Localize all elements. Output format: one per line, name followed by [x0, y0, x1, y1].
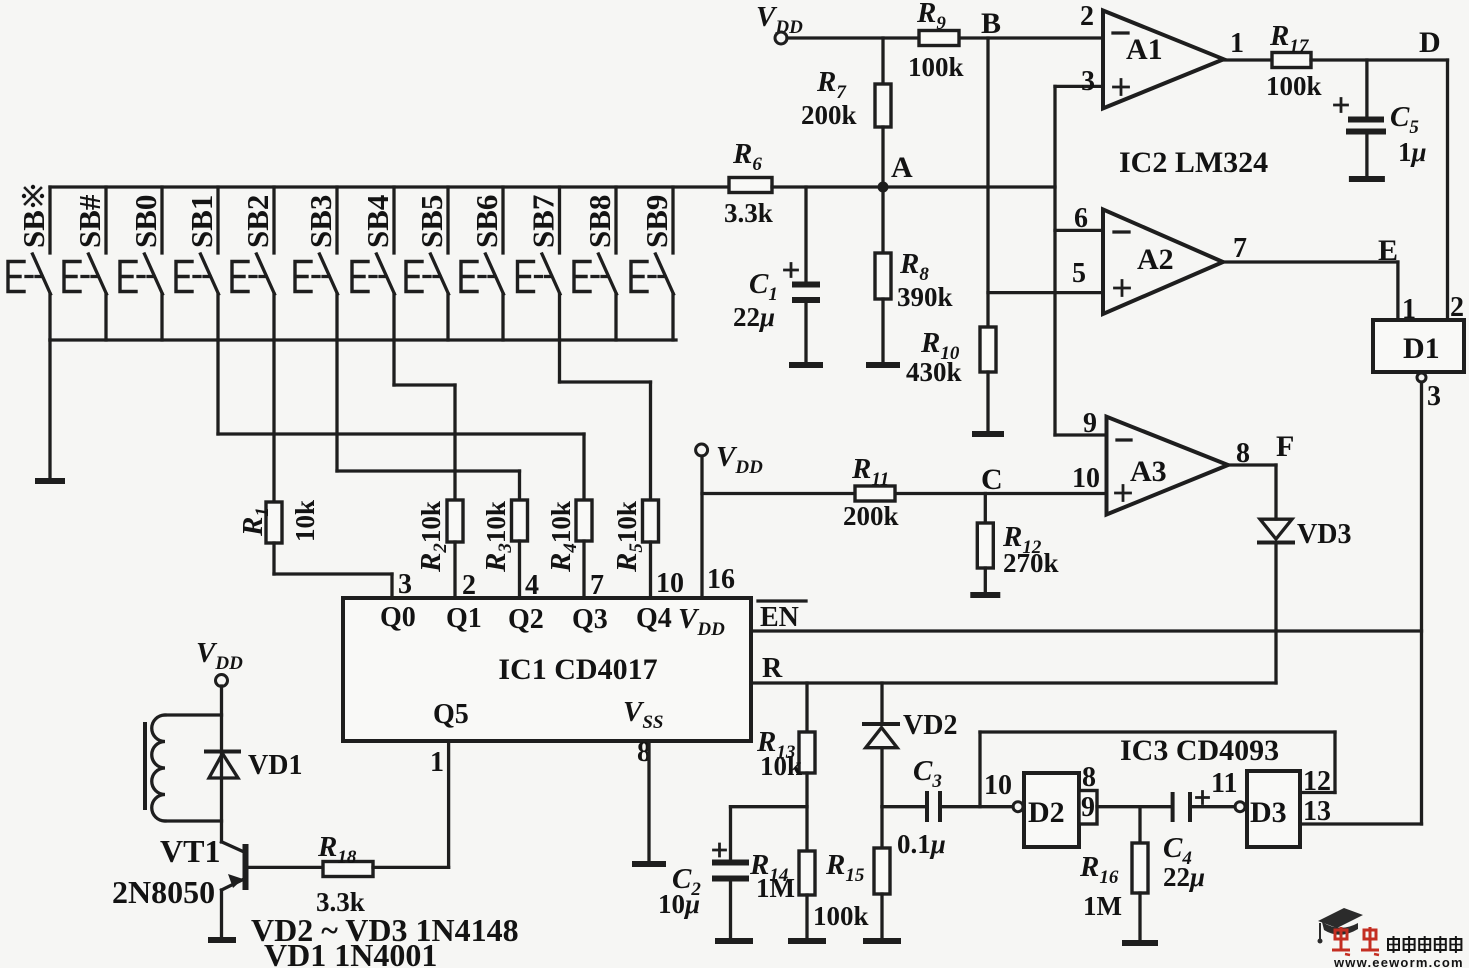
resistor R4 10k — [545, 500, 592, 598]
switch SBx — [8, 185, 51, 340]
watermark site name characters — [1388, 936, 1399, 953]
switch SB1 — [176, 187, 219, 340]
svg-text:4: 4 — [525, 570, 539, 601]
svg-text:IC3 CD4093: IC3 CD4093 — [1120, 734, 1279, 767]
switch SB8 — [574, 187, 617, 340]
svg-text:A: A — [891, 151, 913, 184]
svg-text:SB#: SB# — [72, 194, 107, 248]
wire SB7 to R5 — [560, 340, 651, 500]
wire op-amp input bus (pins 3,6,9) — [1055, 86, 1107, 435]
svg-text:1μ: 1μ — [1398, 137, 1427, 167]
wire D1 pin3 down right side — [1420, 382, 1423, 824]
svg-text:200k: 200k — [843, 501, 899, 531]
svg-text:430k: 430k — [906, 357, 962, 387]
switch SB2 — [232, 187, 275, 340]
svg-text:9: 9 — [1081, 792, 1095, 823]
svg-text:F: F — [1276, 430, 1294, 463]
Vdd terminal lower left — [196, 637, 243, 687]
wire A3 out to node F — [1228, 465, 1276, 519]
watermark chongchong red characters — [1332, 927, 1350, 955]
capacitor C5 1u — [1335, 60, 1427, 167]
svg-text:Q4: Q4 — [636, 603, 672, 634]
capacitor C3 0.1u — [882, 755, 946, 859]
resistor R1 10k — [237, 500, 320, 543]
Vdd terminal top — [756, 1, 803, 44]
svg-text:270k: 270k — [1003, 548, 1059, 578]
wire D3 pin13 to right vertical — [1300, 822, 1422, 825]
resistor R14 1M — [749, 849, 815, 903]
svg-text:D3: D3 — [1250, 796, 1287, 829]
pin 16 Vdd wire and terminal — [696, 441, 763, 598]
ground under R12 — [970, 568, 1000, 595]
ground under VT1 emitter — [208, 937, 236, 943]
watermark logo cap — [1318, 908, 1364, 944]
capacitor C4 22u — [1163, 792, 1209, 893]
svg-text:7: 7 — [1233, 233, 1247, 264]
wire node B vertical — [986, 38, 989, 327]
svg-text:IC1 CD4017: IC1 CD4017 — [498, 653, 657, 686]
svg-text:1M: 1M — [756, 873, 795, 903]
resistor R18 3.3k — [316, 831, 373, 917]
svg-text:3: 3 — [398, 569, 412, 600]
wire A1 out to R17 — [1224, 58, 1272, 61]
svg-text:SB8: SB8 — [582, 195, 617, 248]
svg-text:10: 10 — [1072, 463, 1100, 494]
svg-text:SB0: SB0 — [128, 195, 163, 248]
svg-text:200k: 200k — [801, 100, 857, 130]
svg-text:VD1 1N4001: VD1 1N4001 — [264, 937, 437, 968]
wire: top common bus of keypad — [50, 185, 729, 188]
wire base to R18 — [247, 866, 323, 869]
resistor R5 10k — [611, 500, 659, 598]
resistor R8 390k — [875, 187, 953, 312]
resistor R2 10k — [415, 500, 463, 598]
wire Vdd to relay/VD1 — [220, 686, 223, 842]
wire C3 to D2 input — [940, 805, 1013, 808]
svg-text:VD1: VD1 — [248, 750, 302, 781]
op-amp A2 — [1103, 209, 1223, 314]
svg-text:100k: 100k — [1266, 71, 1322, 101]
svg-text:B: B — [981, 7, 1001, 40]
op-amp A3 — [1107, 417, 1229, 515]
svg-text:R410k: R410k — [545, 501, 581, 573]
gate D2 — [1013, 773, 1079, 847]
svg-text:Q0: Q0 — [380, 602, 416, 633]
resistor R16 1M — [1079, 807, 1148, 921]
svg-text:22μ: 22μ — [1163, 862, 1205, 892]
svg-text:3.3k: 3.3k — [724, 198, 773, 228]
svg-text:1M: 1M — [1083, 891, 1122, 921]
svg-text:C: C — [981, 463, 1003, 496]
wire R line — [751, 681, 1276, 684]
svg-text:3: 3 — [1081, 66, 1095, 97]
op IC1 CD4017 box — [343, 598, 751, 741]
wire VD3 to R line — [1274, 543, 1277, 684]
svg-text:SB5: SB5 — [414, 195, 449, 248]
svg-text:390k: 390k — [897, 282, 953, 312]
svg-text:2: 2 — [1080, 1, 1094, 32]
svg-text:7: 7 — [590, 570, 604, 601]
pin 8/9 small box of D2 — [1079, 762, 1097, 824]
svg-text:8: 8 — [1082, 762, 1096, 793]
svg-text:D1: D1 — [1403, 332, 1440, 365]
gate D3 — [1235, 771, 1300, 847]
resistor R11 200k — [843, 453, 899, 531]
svg-text:Q5: Q5 — [433, 699, 469, 730]
resistor R6 3.3k — [724, 138, 773, 228]
switch SB# — [64, 187, 107, 340]
svg-text:6: 6 — [1074, 203, 1088, 234]
svg-text:16: 16 — [707, 564, 735, 595]
wire SB4 to R2 — [394, 340, 455, 500]
transistor VT1 2N8050 — [112, 833, 246, 937]
wire C4 to D3 input — [1190, 805, 1235, 808]
svg-text:0.1μ: 0.1μ — [897, 829, 946, 859]
wire A2 pin5 stub — [988, 291, 1103, 294]
wire R13 to C2 link — [731, 773, 808, 861]
svg-text:10μ: 10μ — [658, 889, 700, 919]
ground under C1 — [789, 300, 823, 365]
ground under R8 — [866, 299, 900, 365]
switch SB5 — [406, 187, 449, 340]
svg-text:D2: D2 — [1028, 796, 1065, 829]
wire SB3 to R3 — [337, 340, 520, 500]
wire Vdd to R11 to node C to A3 pin10 — [702, 492, 1107, 495]
svg-text:IC2 LM324: IC2 LM324 — [1119, 146, 1268, 179]
svg-text:D: D — [1419, 26, 1441, 59]
wire SB1 to R4 — [218, 340, 584, 500]
resistor R13 10k — [756, 683, 815, 781]
svg-text:3: 3 — [1427, 381, 1441, 412]
pin EN label — [758, 601, 806, 633]
wire node A line — [772, 185, 1055, 188]
resistor R12 270k — [977, 494, 1058, 579]
resistor R17 100k — [1266, 20, 1322, 101]
svg-text:SB3: SB3 — [303, 195, 338, 248]
diode VD3 — [1259, 519, 1351, 550]
svg-text:2: 2 — [462, 570, 476, 601]
svg-text:E: E — [1378, 234, 1398, 267]
svg-text:2N8050: 2N8050 — [112, 874, 215, 910]
svg-text:SB7: SB7 — [526, 195, 561, 248]
svg-text:R510k: R510k — [611, 501, 647, 573]
svg-text:SB9: SB9 — [639, 195, 674, 248]
wire D3 pin12 feedback loop to D2 input — [980, 732, 1335, 807]
svg-text:10: 10 — [656, 568, 684, 599]
ground under C5 — [1349, 132, 1385, 180]
svg-text:11: 11 — [1211, 768, 1237, 799]
switch SB7 — [518, 187, 561, 340]
svg-text:10: 10 — [984, 770, 1012, 801]
svg-text:1: 1 — [430, 747, 444, 778]
svg-text:100k: 100k — [908, 52, 964, 82]
ground (keypad common) — [35, 340, 65, 481]
relay coil winding — [145, 715, 222, 821]
wire SB2 to R1 — [272, 340, 275, 502]
wire Vdd to R9 to node B to A1 pin2 — [787, 36, 1103, 39]
svg-text:R310k: R310k — [480, 501, 516, 573]
svg-text:EN: EN — [760, 602, 799, 633]
svg-text:10k: 10k — [760, 751, 802, 781]
svg-text:Q1: Q1 — [446, 603, 482, 634]
node A junction dot — [878, 151, 914, 193]
svg-text:SB6: SB6 — [469, 195, 504, 248]
svg-text:SB4: SB4 — [360, 195, 395, 248]
svg-text:A2: A2 — [1137, 243, 1174, 276]
svg-text:Q3: Q3 — [572, 604, 608, 635]
svg-text:R: R — [762, 653, 783, 684]
svg-text:100k: 100k — [813, 901, 869, 931]
ground under R15 — [863, 894, 901, 941]
svg-text:9: 9 — [1083, 408, 1097, 439]
wire IC1 pin8 to ground — [632, 741, 666, 864]
svg-text:VD3: VD3 — [1297, 519, 1351, 550]
ground under R10 — [972, 372, 1004, 434]
capacitor C1 22u — [733, 187, 820, 332]
wire R17 to node D to D1 pin2 — [1311, 60, 1448, 320]
svg-text:SB2: SB2 — [240, 195, 275, 248]
svg-text:1: 1 — [1230, 28, 1244, 59]
wire R1 to IC1 pin3 — [274, 543, 392, 598]
resistor R10 430k — [906, 327, 996, 387]
switch SB6 — [461, 187, 504, 340]
svg-text:5: 5 — [1072, 258, 1086, 289]
wire D2 out to C4 — [1097, 805, 1170, 808]
ground under R16 — [1122, 893, 1158, 943]
wire R18 to IC1 pin1 — [373, 741, 449, 867]
svg-text:10k: 10k — [290, 500, 320, 542]
wire VD2 to C3/R15 — [880, 748, 883, 807]
wire: lower common bus of keypad — [50, 338, 676, 341]
switch SB0 — [120, 187, 163, 340]
svg-text:VD2: VD2 — [903, 710, 957, 741]
svg-text:Q2: Q2 — [508, 604, 544, 635]
relay driver D1 box — [1373, 320, 1464, 372]
svg-text:R210k: R210k — [415, 501, 451, 573]
svg-text:SB1: SB1 — [184, 195, 219, 248]
svg-text:22μ: 22μ — [733, 302, 775, 332]
ground under R14 — [788, 895, 826, 941]
wire EN line — [751, 629, 1422, 632]
resistor R7 200k — [801, 38, 891, 187]
switch SB9 — [631, 187, 674, 340]
svg-text:A3: A3 — [1130, 455, 1167, 488]
ground under C2 — [715, 879, 753, 942]
resistor R9 100k — [908, 0, 964, 82]
svg-text:SB: SB — [16, 210, 51, 248]
diode VD1 — [206, 750, 302, 781]
capacitor C2 10u — [658, 844, 749, 919]
svg-text:www.eeworm.com: www.eeworm.com — [1333, 955, 1464, 968]
svg-text:A1: A1 — [1126, 33, 1163, 66]
pin 3 bubble of D1 — [1417, 373, 1441, 412]
resistor R3 10k — [480, 500, 528, 598]
switch SB4 — [352, 187, 395, 340]
resistor R15 100k — [813, 807, 890, 931]
switch SB3 — [295, 187, 338, 340]
op-amp A1 — [1103, 11, 1224, 109]
wire A2 out to node E to D1 pin1 — [1223, 262, 1398, 320]
svg-text:VT1: VT1 — [160, 833, 220, 869]
diode VD2 — [864, 683, 957, 748]
